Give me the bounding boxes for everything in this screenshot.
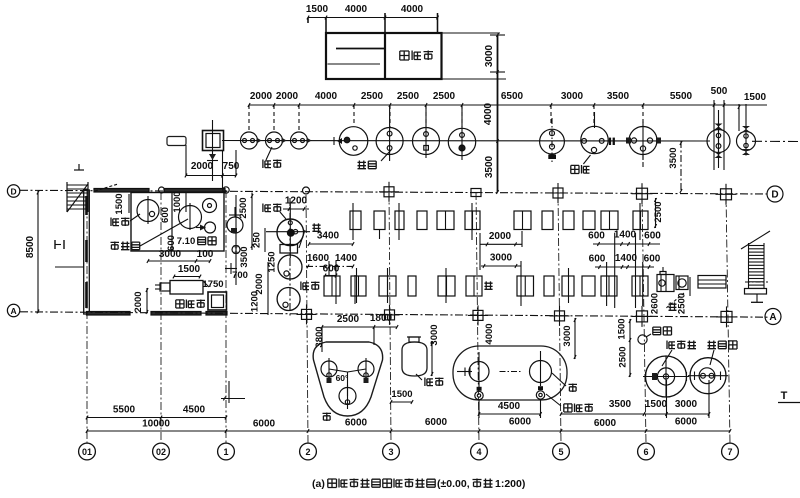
tank row dim line — [249, 104, 767, 106]
cluster tank 3 — [277, 288, 300, 311]
reboiler dim 4500 — [479, 413, 541, 415]
svg-text:01: 01 — [82, 447, 92, 457]
svg-text:1800: 1800 — [370, 313, 393, 324]
col base D3 — [384, 187, 394, 197]
svg-text:6500: 6500 — [501, 91, 524, 102]
svg-text:3400: 3400 — [317, 231, 340, 242]
door knob 2 — [223, 187, 229, 193]
svg-text:D: D — [771, 190, 778, 201]
grid line col 01 — [86, 191, 88, 443]
svg-text:3800: 3800 — [314, 326, 325, 347]
dim ext dashes to tanks — [248, 105, 250, 131]
svg-text:700: 700 — [232, 270, 248, 281]
right stairs — [748, 243, 750, 288]
svg-text:3000: 3000 — [159, 249, 182, 260]
label 泵 machine — [669, 302, 677, 310]
svg-text:1400: 1400 — [335, 253, 358, 264]
annex bottom wall seg1 — [87, 312, 131, 316]
pump P3 top row — [291, 132, 308, 149]
tank connector left — [608, 140, 629, 142]
storage tank row2 b — [581, 126, 608, 153]
grid bubble 01 — [79, 443, 96, 460]
svg-text:3000: 3000 — [562, 325, 573, 346]
pool label 中和池 — [400, 51, 409, 60]
label 储槽 (top pumps) — [263, 160, 271, 169]
filter machine motor — [160, 283, 170, 291]
reboiler circle 2 — [530, 361, 552, 383]
svg-text:1500: 1500 — [391, 389, 412, 400]
tower circle 3 — [339, 388, 356, 405]
svg-text:600: 600 — [160, 207, 171, 223]
label 木槽 — [653, 327, 661, 335]
horizontal tank right — [698, 276, 726, 289]
svg-text:1500: 1500 — [114, 193, 125, 214]
annex dim 1500 — [174, 276, 200, 278]
dim ext 500/1500 verticals — [713, 100, 715, 170]
svg-text:6: 6 — [643, 447, 648, 457]
storage tank row2 c — [629, 127, 657, 155]
svg-text:2600: 2600 — [650, 293, 661, 314]
label 储槽 mid — [358, 161, 367, 169]
svg-text:1200: 1200 — [285, 196, 308, 207]
svg-text:3: 3 — [388, 447, 393, 457]
svg-text:600: 600 — [644, 231, 661, 242]
vessel 储槽 b — [402, 342, 427, 376]
svg-text:60°: 60° — [336, 373, 349, 383]
dim 8500 line — [37, 191, 39, 313]
grid line col 5 — [558, 193, 561, 443]
svg-text:2000: 2000 — [133, 291, 144, 312]
svg-text:600: 600 — [589, 254, 606, 265]
svg-text:2000: 2000 — [250, 91, 273, 102]
machine leader dash — [665, 293, 684, 309]
svg-text:1500: 1500 — [306, 4, 329, 15]
platform partition — [171, 193, 173, 252]
cluster centerline — [289, 198, 291, 318]
dim 2000 pumps — [480, 243, 522, 245]
filter drain triangle — [209, 154, 216, 160]
svg-text:7.10: 7.10 — [177, 236, 196, 247]
pool bottom edge extension — [442, 78, 506, 80]
label 储槽 row2 — [571, 165, 579, 173]
svg-text:2500: 2500 — [618, 346, 629, 367]
pool divider — [384, 33, 386, 79]
dim 1200 cluster — [283, 208, 309, 210]
svg-text:1400: 1400 — [614, 230, 637, 241]
tower circle 1 — [321, 361, 337, 377]
svg-text:5: 5 — [558, 447, 563, 457]
grid line col 4 — [476, 192, 479, 443]
svg-text:100: 100 — [197, 249, 214, 260]
pump valve circle small — [232, 246, 240, 254]
svg-text:2: 2 — [305, 447, 310, 457]
col base A6 — [637, 311, 648, 322]
cluster pump rect — [280, 245, 298, 254]
svg-text:4500: 4500 — [183, 405, 206, 416]
ext line x222.5 — [222, 150, 224, 190]
vessel neck — [409, 337, 419, 342]
svg-text:T: T — [781, 390, 788, 402]
cluster tank 2 — [278, 255, 302, 279]
col base A4 — [473, 310, 483, 320]
ext line x236 upper — [235, 150, 237, 176]
leader 储槽 row2 — [583, 155, 590, 164]
annex top wall seg2 — [164, 189, 225, 193]
cooler — [690, 358, 726, 394]
svg-text:1500: 1500 — [645, 399, 668, 410]
svg-text:1500: 1500 — [178, 264, 201, 275]
pump stubs top — [352, 203, 354, 240]
grid line col 1 — [225, 190, 227, 443]
grid bubble A right — [765, 309, 781, 325]
grid bubble 6 — [638, 443, 655, 460]
col base D4 small — [471, 189, 481, 197]
small tank b with arrow — [205, 222, 216, 233]
tower dim 2500 1800 — [322, 326, 397, 328]
annex top wall seg1 — [94, 189, 149, 193]
label 配制液 — [111, 242, 120, 251]
section mark I — [54, 240, 56, 249]
survey cross col1 — [221, 398, 245, 400]
stair mark top — [74, 169, 84, 171]
grid line col 6 — [642, 194, 646, 443]
svg-text:2000: 2000 — [276, 91, 299, 102]
dims 3500 1500 3000 — [561, 413, 709, 415]
strip line x236 — [235, 195, 237, 285]
svg-text:6000: 6000 — [675, 417, 698, 428]
dim 3400 — [309, 243, 353, 245]
svg-text:5500: 5500 — [113, 405, 136, 416]
grid bubble D left — [7, 185, 19, 197]
vessel label 储槽 — [425, 378, 433, 387]
knob row D col2 — [303, 187, 310, 194]
grid bubble 3 — [383, 443, 400, 460]
line filter to pumps — [224, 140, 241, 142]
label 储槽 annex — [111, 218, 119, 227]
svg-text:4000: 4000 — [483, 102, 494, 125]
svg-text:1200: 1200 — [250, 291, 261, 312]
pump row bottom — [324, 276, 340, 296]
pump P2 top row — [266, 132, 283, 149]
pool inner line 1 — [336, 48, 385, 50]
tank 储槽 annex — [137, 200, 159, 222]
right stair support — [756, 294, 758, 302]
tower circle 2 — [358, 361, 374, 377]
label 塔 — [323, 413, 332, 422]
svg-text:8500: 8500 — [25, 235, 36, 258]
svg-text:1:200): 1:200) — [495, 478, 525, 490]
svg-text:4000: 4000 — [484, 323, 495, 344]
svg-text:250: 250 — [252, 232, 263, 248]
vert dim 3500 right — [680, 141, 682, 193]
grid line col 2 — [306, 195, 308, 443]
annex left wall — [84, 190, 90, 314]
grid bubble 5 — [553, 443, 570, 460]
storage tank row3 a — [707, 130, 730, 153]
svg-text:A: A — [11, 306, 17, 316]
svg-text:(±0.00,: (±0.00, — [437, 478, 470, 490]
svg-text:2500: 2500 — [238, 197, 249, 218]
svg-text:1600: 1600 — [307, 253, 330, 264]
svg-text:6000: 6000 — [425, 417, 448, 428]
svg-text:1000: 1000 — [172, 191, 183, 212]
leader 储槽 top — [266, 147, 272, 160]
door swing dash — [95, 184, 118, 191]
storage tank row1 a — [339, 127, 368, 156]
svg-text:2500: 2500 — [397, 91, 420, 102]
grid bubble D right — [767, 186, 783, 202]
svg-text:02: 02 — [156, 447, 166, 457]
svg-text:2000: 2000 — [191, 161, 214, 172]
svg-text:600: 600 — [588, 231, 605, 242]
dim 1600 1400 — [306, 265, 353, 267]
svg-text:3000: 3000 — [429, 324, 440, 345]
grid bubble 7 — [722, 443, 739, 460]
left stairs — [66, 182, 68, 212]
strip line x252 — [251, 193, 253, 251]
pump row top — [350, 211, 361, 230]
dim 600 small — [325, 275, 336, 277]
col base A7 — [721, 311, 732, 322]
label 过滤机 — [176, 300, 184, 308]
machine assembly A — [657, 275, 674, 292]
feed hopper rect — [167, 137, 186, 146]
svg-text:7: 7 — [727, 447, 732, 457]
svg-text:1: 1 — [223, 447, 228, 457]
svg-text:3500: 3500 — [607, 91, 630, 102]
svg-text:4: 4 — [476, 447, 481, 457]
neutralization pool outline — [326, 33, 442, 79]
svg-text:4500: 4500 — [498, 401, 521, 412]
annex outside shelf line — [55, 266, 84, 268]
pump P1 top row — [241, 132, 258, 149]
cluster tank 1 — [277, 219, 304, 246]
dim 600 1400 600 top — [593, 243, 660, 245]
svg-text:3500: 3500 — [484, 155, 495, 178]
svg-text:6000: 6000 — [509, 417, 532, 428]
tower 60 deg lines — [329, 369, 348, 372]
col base D6 — [637, 188, 648, 199]
small tank a — [203, 199, 217, 213]
wood tank 木槽 — [638, 335, 647, 344]
storage tank row1 c — [413, 128, 440, 155]
row D axis line — [20, 190, 770, 194]
pump shaft verticals right — [614, 233, 616, 308]
svg-text:(a): (a) — [312, 478, 325, 490]
reboiler outline — [453, 346, 567, 400]
reboiler port 1 — [475, 391, 483, 399]
svg-text:3000: 3000 — [561, 91, 584, 102]
svg-text:A: A — [769, 312, 776, 323]
svg-text:4000: 4000 — [315, 91, 338, 102]
grid line col 7 — [726, 195, 730, 444]
svg-text:750: 750 — [223, 161, 240, 172]
vertical dim line 3000/4000/3500 — [497, 35, 499, 192]
svg-text:600: 600 — [644, 254, 661, 265]
svg-text:1750: 1750 — [202, 279, 223, 290]
col base D5 — [553, 188, 563, 198]
svg-text:3000: 3000 — [675, 399, 698, 410]
filter double square — [203, 131, 224, 151]
dim line top (1500,4000,4000) — [308, 17, 438, 19]
storage tank row2 a — [540, 129, 565, 154]
svg-text:6000: 6000 — [594, 418, 617, 429]
label 泵 bottom row — [484, 281, 492, 289]
storage tank row1 b — [376, 128, 403, 155]
svg-text:1500: 1500 — [617, 318, 628, 339]
tank 配制槽 — [179, 206, 202, 229]
filter machine body — [170, 281, 203, 295]
oxidation tower — [646, 356, 687, 397]
svg-text:D: D — [11, 186, 17, 196]
label 储槽 cluster — [263, 204, 271, 213]
door knob 1 — [159, 187, 165, 193]
svg-text:500: 500 — [711, 86, 728, 97]
label 氧化塔 — [667, 341, 675, 350]
dim 3000 pumps — [481, 265, 521, 267]
reboiler left tick — [457, 371, 472, 373]
hopper drop line — [185, 145, 187, 176]
strip cross mark — [225, 268, 237, 270]
grid line col 3 — [389, 192, 391, 443]
grid bubble 1 — [218, 443, 235, 460]
annex dim 3000/100 — [148, 260, 210, 262]
label 冷却器 — [708, 341, 717, 349]
vert dim 2500 col6 — [655, 198, 657, 228]
pump stubs bottom — [356, 268, 358, 303]
grid line col 02 — [160, 192, 162, 443]
dim 600 1400 600 bottom — [595, 266, 654, 268]
tower outline — [313, 342, 382, 416]
platform room outline — [131, 193, 224, 252]
svg-text:1400: 1400 — [615, 253, 638, 264]
svg-text:2500: 2500 — [653, 201, 664, 222]
col base A2 — [302, 309, 312, 319]
svg-text:5500: 5500 — [670, 91, 693, 102]
grid bubble 2 — [300, 443, 317, 460]
bottom dim line upper (5500/4500) — [87, 417, 226, 419]
svg-text:3000: 3000 — [484, 44, 495, 67]
label 燃 — [569, 384, 578, 393]
col base D7 — [721, 189, 732, 200]
reboiler port 2 — [536, 391, 544, 399]
label 再沸器 — [564, 404, 572, 412]
svg-text:3500: 3500 — [609, 399, 632, 410]
row A axis line — [20, 312, 770, 317]
svg-text:2500: 2500 — [337, 314, 360, 325]
col base A3 — [385, 310, 395, 320]
filter centerline — [212, 120, 214, 181]
svg-text:6000: 6000 — [345, 418, 368, 429]
pool inner line 2 — [328, 63, 381, 65]
annex bottom wall seg3 — [206, 312, 227, 316]
svg-text:3000: 3000 — [490, 253, 513, 264]
tank row centerline — [222, 140, 710, 143]
pool top edge extension — [442, 32, 500, 34]
label 泵 cluster — [312, 223, 320, 231]
svg-text:4000: 4000 — [401, 4, 424, 15]
svg-text:600: 600 — [323, 264, 340, 275]
grid bubble 02 — [153, 443, 170, 460]
svg-text:2500: 2500 — [677, 293, 688, 314]
grid bubble A left — [7, 304, 19, 316]
storage tank row3 b — [737, 132, 756, 151]
storage tank row1 d — [448, 128, 475, 155]
annex bottom wall seg2 — [151, 312, 201, 316]
reboiler circle 1 — [469, 362, 489, 382]
svg-text:3500: 3500 — [239, 246, 250, 267]
svg-text:1500: 1500 — [744, 92, 767, 103]
svg-text:3500: 3500 — [668, 147, 679, 168]
pump valve circle — [227, 217, 243, 233]
dim 2000/750 line — [186, 175, 236, 177]
machine assembly B — [676, 276, 688, 290]
svg-text:10000: 10000 — [142, 419, 170, 430]
right stair base — [745, 289, 767, 295]
svg-text:4000: 4000 — [345, 4, 368, 15]
svg-text:6000: 6000 — [253, 419, 276, 430]
ext lines for top dims — [307, 18, 309, 24]
filter double square 2 — [208, 292, 227, 310]
label 储槽 cluster2 — [301, 282, 309, 291]
svg-text:2500: 2500 — [361, 91, 384, 102]
col base A5 — [555, 311, 565, 321]
bottom dim line main — [87, 430, 730, 432]
svg-text:2500: 2500 — [433, 91, 456, 102]
svg-text:2000: 2000 — [489, 231, 512, 242]
grid bubble 4 — [471, 443, 488, 460]
